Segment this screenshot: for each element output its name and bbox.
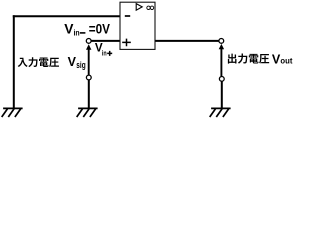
- ground: signal source ground: [78, 107, 98, 109]
- svg-text:in: in: [102, 48, 107, 57]
- op-amp non-inverting input "+" mark: [122, 39, 131, 47]
- arrow: output voltage Vout polarity arrow (points up): [220, 48, 222, 76]
- wire: left vertical rail down to ground: [13, 15, 15, 107]
- ground: output ground: [211, 107, 231, 109]
- svg-text:in: in: [74, 27, 80, 37]
- wire: output wire from op-amp to Vout node: [155, 40, 219, 42]
- ground: left rail ground: [3, 107, 23, 109]
- terminal node: Vout lower (open circle): [219, 77, 224, 82]
- arrow: input voltage Vsig polarity arrow (points up): [88, 49, 90, 75]
- label: output voltage kanji 出力電圧: [228, 54, 269, 64]
- wire: non-inverting input wire from Vin+ node to op-amp: [91, 40, 120, 42]
- op-amp U1 body (rectangle symbol): [120, 2, 155, 49]
- wire: below Vout lower terminal to ground: [221, 81, 223, 107]
- terminal node: Vout upper (open circle): [219, 39, 224, 44]
- op-amp inverting input "-" mark: [125, 15, 130, 17]
- wire: top feedback wire from left rail to op-amp inverting input: [13, 15, 120, 17]
- svg-text:=0V: =0V: [89, 21, 111, 36]
- svg-text:out: out: [280, 57, 292, 66]
- terminal node: Vsig lower (open circle): [86, 75, 91, 80]
- svg-text:V: V: [68, 55, 77, 69]
- op-amp infinity gain symbol: [147, 6, 150, 9]
- svg-text:sig: sig: [76, 60, 86, 71]
- terminal node: Vin+ upper (open circle): [86, 39, 91, 44]
- op-amp gain triangle symbol: [136, 4, 142, 11]
- label: input voltage kanji 入力電圧: [18, 57, 59, 67]
- wire: below Vsig source lower terminal to ground: [88, 80, 90, 108]
